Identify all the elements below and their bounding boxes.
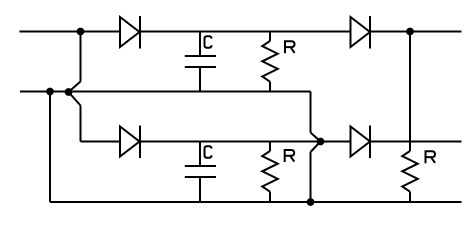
wire rail1 segment right — [370, 31, 462, 33]
resistor R2 top lead — [269, 142, 271, 152]
label R2 value R — [285, 149, 295, 162]
label R1 value R — [285, 40, 295, 53]
label C1 value C — [205, 36, 212, 48]
resistor R2 bottom lead — [269, 192, 271, 202]
capacitor C1 bottom lead — [199, 68, 201, 92]
wire vertical left branch x=50 — [49, 92, 51, 203]
node junction dot on rail1 at x=80 — [78, 29, 84, 35]
node junction dot on rail2 at x=68.5 — [66, 89, 72, 95]
capacitor C1 plates — [185, 55, 216, 57]
wire vertical down to lower-left corner — [80, 106, 82, 142]
capacitor C2 top lead — [199, 142, 201, 166]
wire diagonal from rail3 node down — [311, 142, 321, 153]
wire bottom rail — [50, 201, 462, 203]
diode D3 — [351, 16, 371, 49]
diode D1 — [120, 16, 140, 49]
wire rail1 segment left — [20, 31, 121, 33]
wire rail2 — [20, 91, 311, 93]
label R3 value R — [426, 150, 436, 163]
resistor R1 top lead — [269, 32, 271, 42]
capacitor C2 bottom lead — [199, 178, 201, 203]
diode D2 — [120, 126, 140, 159]
wire rail3 segment middle — [140, 141, 351, 143]
wire rail2 bend vertical — [310, 92, 312, 133]
diode D4 — [351, 126, 371, 159]
wire rail3 segment right — [370, 141, 462, 143]
resistor R3 bottom lead — [409, 192, 411, 202]
wire vertical down to bottom rail — [310, 152, 312, 202]
capacitor C1 top lead — [199, 32, 201, 56]
node junction dot on rail2 at x=50 — [47, 89, 53, 95]
wire diagonal from rail2 node down — [69, 92, 81, 106]
wire rail1 segment middle — [140, 31, 351, 33]
resistor R2 zigzag — [262, 151, 278, 192]
wire vertical from rail1 junction down to Y-split — [80, 32, 82, 82]
wire horizontal to lower diode D2 — [81, 141, 121, 143]
resistor R3 zigzag — [402, 151, 418, 192]
resistor R3 top lead from rail1 junction through rail3 — [409, 32, 411, 152]
node junction dot on rail1 at x=410 — [407, 29, 413, 35]
node junction dot on bottom rail at x=310.5 — [308, 199, 314, 205]
label C2 value C — [205, 146, 212, 158]
wire diagonal into rail2 node — [69, 82, 81, 93]
wire diagonal into rail3 node — [311, 133, 321, 142]
node junction dot on rail3 at x=320.5 — [318, 139, 324, 145]
resistor R1 zigzag — [262, 41, 278, 82]
capacitor C2 plates — [185, 165, 216, 167]
resistor R1 bottom lead — [269, 82, 271, 92]
